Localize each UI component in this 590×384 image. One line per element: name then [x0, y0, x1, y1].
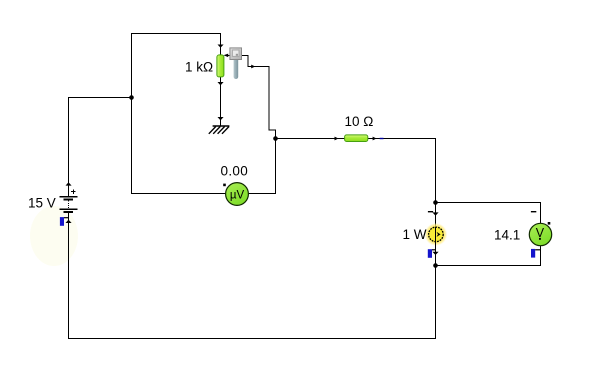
wire node C to lamp: [435, 203, 437, 228]
wire top loop from node A to R1 top: [132, 34, 221, 98]
lamp negative tick: [428, 211, 433, 212]
svg-text:10 Ω: 10 Ω: [345, 114, 374, 129]
lamp L1 glow halo: [424, 223, 447, 246]
current arrow down below R1: [218, 82, 224, 85]
svg-text:1 kΩ: 1 kΩ: [185, 60, 213, 75]
wire voltmeter loop top: [436, 203, 541, 224]
resistor R2 10 Ohm: [345, 135, 368, 142]
voltmeter V1: [529, 223, 551, 245]
lamp blue probe: [428, 249, 436, 258]
ground: [209, 126, 230, 134]
node A junction dot: [129, 95, 134, 100]
wire battery branch from node A: [69, 98, 132, 197]
wire voltmeter loop bottom: [436, 246, 541, 266]
voltmeter negative tick: [531, 211, 536, 212]
current arrow down above lamp: [432, 212, 438, 215]
svg-text:µV: µV: [230, 190, 245, 202]
wire galvanometer right to node B: [248, 139, 276, 194]
node D junction dot: [433, 263, 438, 268]
current arrow right on wiper wire: [251, 65, 255, 69]
svg-text:1 W: 1 W: [403, 227, 427, 242]
resistor R1 1 kOhm potentiometer track: [217, 55, 224, 77]
wire wiper to node B: [228, 56, 276, 139]
potentiometer screwdriver adjuster: [230, 48, 242, 79]
galvanometer M1 microvolt meter: [226, 183, 249, 206]
svg-text:0.00: 0.00: [221, 164, 248, 179]
node C junction dot: [433, 200, 438, 205]
wire node B through R2 to node C: [276, 139, 436, 203]
svg-text:14.1: 14.1: [494, 228, 520, 243]
wire lamp to node D: [435, 241, 437, 265]
voltmeter blue probe: [531, 249, 541, 258]
blue probe tick on wire after R2: [380, 138, 384, 139]
battery faint heat glow: [30, 206, 78, 266]
node B junction dot: [273, 136, 278, 141]
current arrow down below lamp: [432, 252, 438, 255]
voltmeter polarity dot: [548, 222, 551, 225]
svg-text:15 V: 15 V: [28, 195, 56, 210]
current arrow right after R2: [373, 137, 377, 141]
lamp L1 1 W: [429, 227, 444, 242]
current arrow up above battery: [66, 182, 72, 185]
current arrow up below battery: [66, 220, 72, 223]
potentiometer wiper arrow: [224, 54, 229, 58]
current arrow down at ground: [218, 117, 224, 120]
wire below R1 to ground: [220, 77, 222, 126]
wire battery to bottom rail to node D: [69, 213, 436, 339]
battery blue probe: [60, 217, 69, 226]
current arrow down into R1: [218, 45, 224, 48]
battery B1 15 V: [60, 189, 78, 213]
wire left branch node A to galvanometer: [132, 98, 227, 194]
current arrow right before R2: [335, 137, 339, 141]
galvanometer polarity dot: [223, 184, 226, 187]
